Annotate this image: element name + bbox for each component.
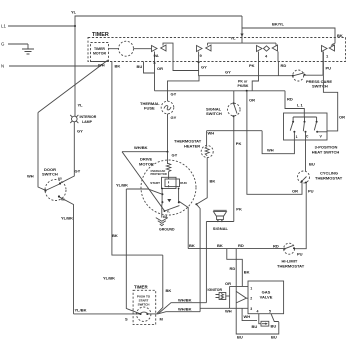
wire RD drop <box>277 62 279 76</box>
svg-text:WH: WH <box>98 63 105 68</box>
wire BK timer drop <box>112 62 163 256</box>
wire fuse bottom <box>167 114 169 152</box>
wire OR into V <box>317 131 327 133</box>
svg-text:YL/BK: YL/BK <box>116 183 128 188</box>
wire lamp to door switch <box>60 122 74 184</box>
wire YL/BK motor drop <box>126 189 140 314</box>
wire motor to bus <box>179 201 189 249</box>
svg-text:PROTECTOR: PROTECTOR <box>151 172 167 176</box>
svg-text:OR: OR <box>292 189 298 194</box>
svg-text:OR: OR <box>249 98 255 103</box>
wire heater top <box>206 131 208 146</box>
wire BU link under box <box>144 62 155 74</box>
timer motor box (dashed) <box>91 43 109 62</box>
wire WH to pin3 <box>200 307 248 309</box>
push-to-start switch <box>137 307 151 321</box>
wire PU to h-limit <box>294 184 306 249</box>
h-limit thermostat <box>284 243 295 254</box>
svg-text:NO: NO <box>58 177 62 181</box>
svg-text:L 1: L 1 <box>297 103 303 108</box>
wire OR to pin1 <box>230 285 248 287</box>
svg-text:PK: PK <box>249 63 255 68</box>
svg-text:WH/BK: WH/BK <box>178 298 192 303</box>
svg-text:SWITCH: SWITCH <box>206 111 222 116</box>
svg-text:BU: BU <box>309 161 315 166</box>
svg-text:YL: YL <box>71 10 77 15</box>
svg-text:HEATER: HEATER <box>184 143 200 148</box>
svg-text:INTERIOR: INTERIOR <box>80 115 97 119</box>
wire WH/BK horizontal <box>122 151 168 153</box>
drive motor circle <box>141 160 196 215</box>
wire ignitor riser <box>229 286 231 308</box>
svg-text:WH: WH <box>27 174 34 179</box>
svg-text:BU: BU <box>137 64 143 69</box>
wire YL cam bus <box>208 42 277 44</box>
wire N <box>9 65 100 67</box>
svg-text:5: 5 <box>269 309 271 313</box>
thermal fuse <box>161 101 174 114</box>
svg-text:SWITCH: SWITCH <box>42 172 58 177</box>
timer box (dashed) <box>88 38 346 62</box>
centrifugal switch arm <box>165 206 180 211</box>
wire WH/BK upper <box>159 303 207 314</box>
push-to-start box <box>133 290 156 324</box>
svg-text:4: 4 <box>257 310 259 314</box>
svg-text:RD: RD <box>273 243 279 248</box>
svg-text:THERMOSTAT: THERMOSTAT <box>315 175 343 180</box>
timer motor circle (dashed) <box>119 41 134 56</box>
wire PK drop from contact 4 <box>252 62 258 91</box>
start winding <box>162 177 177 188</box>
wire thermal fuse feed <box>168 76 200 102</box>
motor ground <box>161 202 164 218</box>
svg-text:PU: PU <box>297 251 303 256</box>
wire motor run down <box>196 204 200 312</box>
svg-text:HEAT SWITCH: HEAT SWITCH <box>312 149 340 154</box>
svg-text:WH: WH <box>208 131 215 136</box>
ground (earth symbol) <box>22 49 34 54</box>
svg-text:BU: BU <box>271 335 277 340</box>
wire WH/BK lower <box>158 312 201 314</box>
svg-text:SWITCH: SWITCH <box>138 302 150 306</box>
svg-text:RD: RD <box>281 63 287 68</box>
svg-text:BK: BK <box>112 233 118 238</box>
wire BK to M <box>157 255 163 313</box>
svg-text:YL/BK: YL/BK <box>75 308 87 313</box>
svg-text:1: 1 <box>296 135 298 139</box>
svg-text:OR: OR <box>157 66 163 71</box>
winding bottoms <box>162 189 179 203</box>
junction GY/WHBK <box>167 151 169 153</box>
svg-text:WH: WH <box>244 314 251 319</box>
svg-text:1: 1 <box>250 286 252 290</box>
wire OR return <box>247 91 302 194</box>
svg-text:BK: BK <box>166 288 172 293</box>
wire WH/BK diagonal into motor <box>122 152 165 211</box>
svg-text:BU: BU <box>252 324 258 329</box>
svg-text:L1: L1 <box>1 24 6 29</box>
svg-text:TIMER: TIMER <box>94 47 105 51</box>
svg-text:RD: RD <box>238 243 244 248</box>
wire WH L-path <box>242 308 257 320</box>
wire heater bus y131 <box>207 130 263 132</box>
wire flame sensor riser / outer boundary <box>236 249 279 334</box>
gas valve box <box>248 281 284 314</box>
heat switch contacts <box>292 121 294 123</box>
svg-text:GY: GY <box>75 169 81 174</box>
junction dot OR bus <box>246 90 248 92</box>
wire speaker bus <box>206 221 233 223</box>
overload protector <box>168 152 169 164</box>
svg-text:GY: GY <box>225 70 231 75</box>
svg-text:GY: GY <box>77 129 83 134</box>
flame switch triangle to pin2 <box>236 291 246 303</box>
wire heater bottom BK <box>196 158 207 205</box>
wire L1 drop to heat switch <box>285 91 304 117</box>
wire YL top run <box>75 16 242 26</box>
svg-text:BK: BK <box>115 64 121 69</box>
svg-text:PU: PU <box>308 189 314 194</box>
gas valve coil <box>259 314 261 324</box>
svg-text:3: 3 <box>250 307 252 311</box>
wire door switch left <box>38 113 46 191</box>
svg-text:GY: GY <box>172 153 178 158</box>
wire YL right drop <box>241 16 243 43</box>
svg-text:S: S <box>125 316 128 321</box>
wire timer motor to cam <box>109 48 152 50</box>
svg-text:MOTOR: MOTOR <box>93 52 106 56</box>
svg-text:WH: WH <box>225 309 232 314</box>
cycling thermostat <box>298 171 310 183</box>
svg-text:RD: RD <box>287 97 293 102</box>
svg-text:YL: YL <box>78 103 84 108</box>
junction arrow <box>240 34 243 38</box>
svg-text:BK: BK <box>189 243 195 248</box>
wire press-care to heat switch OR <box>323 75 337 131</box>
junction dot 9 leg <box>198 61 200 63</box>
wire WH diagonal timer to door <box>38 60 108 113</box>
svg-text:BU: BU <box>271 324 277 329</box>
svg-text:YL/BK: YL/BK <box>103 276 115 281</box>
svg-text:9A: 9A <box>154 53 159 58</box>
contact 9 <box>197 45 212 52</box>
svg-text:SWITCH: SWITCH <box>312 83 328 88</box>
svg-text:PK: PK <box>236 141 242 146</box>
svg-text:GROUND: GROUND <box>159 227 175 231</box>
svg-text:PK/BK: PK/BK <box>238 84 249 88</box>
svg-text:N: N <box>1 64 4 69</box>
svg-text:2: 2 <box>250 296 252 300</box>
svg-text:BK: BK <box>210 179 216 184</box>
wire M terminal fan <box>147 313 157 315</box>
heat switch top bus <box>293 117 317 122</box>
svg-text:LAMP: LAMP <box>82 120 93 124</box>
wire BK/YL <box>242 28 335 46</box>
press care switch <box>293 70 304 81</box>
svg-text:OR: OR <box>225 281 231 286</box>
svg-text:THERMOSTAT: THERMOSTAT <box>277 264 305 269</box>
3-position heat switch box <box>284 113 328 140</box>
interior lamp <box>72 116 78 122</box>
wire WH return from pin1 <box>262 131 294 154</box>
svg-text:GY: GY <box>171 92 177 97</box>
svg-text:FUSE: FUSE <box>144 106 155 111</box>
svg-text:WH/BK: WH/BK <box>178 306 192 311</box>
svg-text:BK: BK <box>217 243 223 248</box>
svg-text:VALVE: VALVE <box>260 295 273 300</box>
speaker signal <box>213 210 226 216</box>
contact 4 <box>257 45 278 52</box>
contact 1 <box>322 45 335 52</box>
svg-text:PU: PU <box>326 66 332 71</box>
svg-text:START: START <box>150 181 160 185</box>
svg-text:OR: OR <box>339 114 345 119</box>
wire door switch out YL/BK <box>59 197 74 314</box>
junction dot 9A leg <box>154 62 156 64</box>
interior lamp vertical <box>74 26 76 116</box>
svg-text:RD: RD <box>230 266 236 271</box>
wire GY feed to press care <box>199 71 293 76</box>
svg-text:BK: BK <box>244 270 250 275</box>
contact 9A <box>152 45 167 52</box>
wire BU to cycling thermostat <box>305 132 307 172</box>
svg-text:GY: GY <box>171 115 177 120</box>
wire OR bus <box>155 63 286 91</box>
wire YL/BK bottom to start switch <box>74 313 141 315</box>
wire YL/BK into motor <box>126 189 162 194</box>
contact arrow <box>167 199 171 202</box>
svg-text:G: G <box>1 42 5 47</box>
svg-text:BK/YL: BK/YL <box>272 22 285 27</box>
svg-text:GY: GY <box>201 64 207 69</box>
svg-text:PK: PK <box>236 207 242 212</box>
svg-text:IGNITOR: IGNITOR <box>208 288 223 292</box>
svg-text:SIGNAL: SIGNAL <box>213 226 229 231</box>
run winding <box>165 179 180 187</box>
svg-text:WH/BK: WH/BK <box>134 145 148 150</box>
svg-text:BU: BU <box>237 335 243 340</box>
wire BK/RD bus to h-limit <box>188 248 284 250</box>
wire PK from signal switch to speaker <box>233 131 235 222</box>
wire U-link under box <box>173 62 199 71</box>
svg-text:RUN: RUN <box>180 181 187 185</box>
wire ground stub <box>8 44 28 49</box>
signal switch <box>228 103 241 116</box>
svg-text:YL: YL <box>231 36 237 41</box>
wire gas knot from bus <box>227 249 243 287</box>
svg-text:YL/BK: YL/BK <box>61 216 73 221</box>
svg-text:YL: YL <box>167 210 171 214</box>
svg-text:TIMER: TIMER <box>134 284 148 289</box>
wire L1 <box>8 25 75 27</box>
svg-text:WH: WH <box>267 147 274 152</box>
